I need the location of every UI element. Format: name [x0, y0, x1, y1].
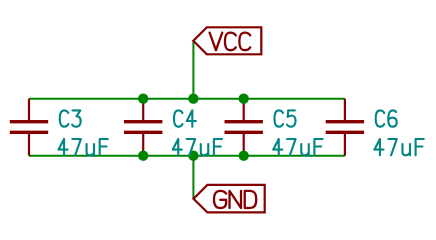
junction GND tap — [188, 151, 198, 161]
label C5 reference — [275, 110, 296, 126]
junction C5 top — [239, 94, 249, 104]
capacitor C6 — [326, 99, 364, 156]
label C4 value 47uF — [173, 139, 222, 155]
wire GND stub — [192, 156, 194, 199]
power flag GND (global label) — [194, 185, 265, 213]
label C4 reference — [174, 110, 196, 126]
label C6 reference — [376, 110, 397, 126]
junction C4 bottom — [138, 151, 148, 161]
capacitor C5 — [225, 99, 263, 156]
junction VCC tap — [188, 94, 198, 104]
wire VCC stub — [192, 41, 194, 98]
label C5 value 47uF — [273, 139, 322, 155]
power flag VCC (global label) — [193, 27, 261, 54]
label C3 value 47uF — [59, 139, 108, 155]
label C6 value 47uF — [374, 139, 423, 155]
wire bottom bus (GND net) — [29, 155, 345, 157]
junction C4 top — [138, 94, 148, 104]
capacitor C4 — [124, 99, 162, 156]
junction C5 bottom — [239, 151, 249, 161]
capacitor C3 — [10, 99, 48, 156]
wire top bus (VCC net) — [29, 98, 345, 100]
label C3 reference — [60, 110, 81, 126]
